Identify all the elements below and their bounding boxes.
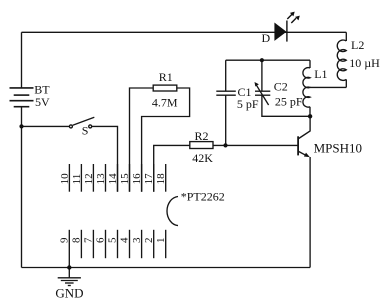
svg-text:*PT2262: *PT2262 <box>181 189 225 203</box>
svg-text:D: D <box>262 31 271 45</box>
svg-text:11: 11 <box>71 174 83 185</box>
switch S <box>69 117 94 128</box>
wire L1 tap to L2 bottom <box>310 86 346 88</box>
wire pin9 to ground rail <box>68 230 70 268</box>
svg-text:18: 18 <box>155 173 167 185</box>
svg-text:13: 13 <box>95 173 107 185</box>
svg-text:16: 16 <box>131 173 143 185</box>
svg-text:C2: C2 <box>274 80 288 94</box>
svg-text:12: 12 <box>83 173 95 184</box>
svg-text:7: 7 <box>83 237 95 243</box>
svg-text:25 pF: 25 pF <box>275 95 303 109</box>
svg-text:4: 4 <box>119 237 131 243</box>
svg-text:S: S <box>82 124 89 138</box>
capacitor C2 (variable) <box>255 60 310 116</box>
wire bottom rail <box>22 267 311 269</box>
wire R2 to base <box>213 144 298 146</box>
node dot battery/switch <box>19 124 23 128</box>
LED light arrow 2 <box>291 16 300 23</box>
svg-text:4.7M: 4.7M <box>152 95 178 109</box>
svg-text:L1: L1 <box>314 67 327 81</box>
wire pin15 to R1 left <box>130 88 154 192</box>
svg-text:5 pF: 5 pF <box>237 97 259 111</box>
svg-text:8: 8 <box>71 237 83 243</box>
transistor Q1 MPSH10 <box>298 116 310 156</box>
wire R1 right to pin16 <box>142 88 190 192</box>
svg-text:6: 6 <box>95 237 107 243</box>
wire pin17 to R2 left <box>154 145 190 191</box>
svg-text:9: 9 <box>59 237 71 243</box>
svg-text:R2: R2 <box>195 129 209 143</box>
IC PT2262 pin lines bottom row <box>81 230 165 258</box>
LED light arrow 1 <box>287 12 294 19</box>
LED D <box>274 23 286 41</box>
svg-text:10 µH: 10 µH <box>349 56 380 70</box>
inductor L1 <box>303 60 310 116</box>
node dot tank top <box>260 58 264 62</box>
IC PT2262 pin lines top row <box>69 164 165 192</box>
C2 arrow head <box>255 82 259 87</box>
LED cathode bar <box>286 21 287 42</box>
wire left rail upper <box>21 32 23 88</box>
wire top rail <box>22 31 347 33</box>
svg-text:15: 15 <box>119 173 131 185</box>
svg-text:2: 2 <box>143 238 155 244</box>
node dot ground/pin9 <box>67 265 71 269</box>
svg-text:R1: R1 <box>159 70 173 84</box>
svg-text:MPSH10: MPSH10 <box>314 140 362 155</box>
wire left rail lower <box>21 107 23 268</box>
node dot C1 bottom/base <box>223 143 227 147</box>
svg-text:1: 1 <box>155 238 167 244</box>
resistor R2 <box>190 142 213 149</box>
svg-text:L2: L2 <box>351 38 364 52</box>
svg-text:GND: GND <box>55 285 83 300</box>
wire tank top rail <box>226 59 310 61</box>
svg-text:17: 17 <box>143 173 155 185</box>
capacitor C1 <box>216 60 236 145</box>
svg-text:5: 5 <box>107 237 119 243</box>
resistor R1 <box>153 85 177 91</box>
node dot tank bottom/collector <box>308 114 312 118</box>
svg-text:42K: 42K <box>192 151 213 165</box>
svg-text:14: 14 <box>107 173 119 185</box>
svg-text:3: 3 <box>131 237 143 243</box>
emitter arrow head <box>304 153 310 158</box>
wire emitter to bottom rail <box>309 157 311 268</box>
svg-text:10: 10 <box>59 173 71 185</box>
inductor L2 <box>337 32 346 87</box>
brace arc for PT2262 <box>167 197 178 226</box>
svg-text:5V: 5V <box>35 95 50 109</box>
battery BT <box>10 88 34 107</box>
ground <box>58 268 81 286</box>
wire switch to pin14 <box>92 126 118 191</box>
wire switch feed <box>22 125 70 127</box>
